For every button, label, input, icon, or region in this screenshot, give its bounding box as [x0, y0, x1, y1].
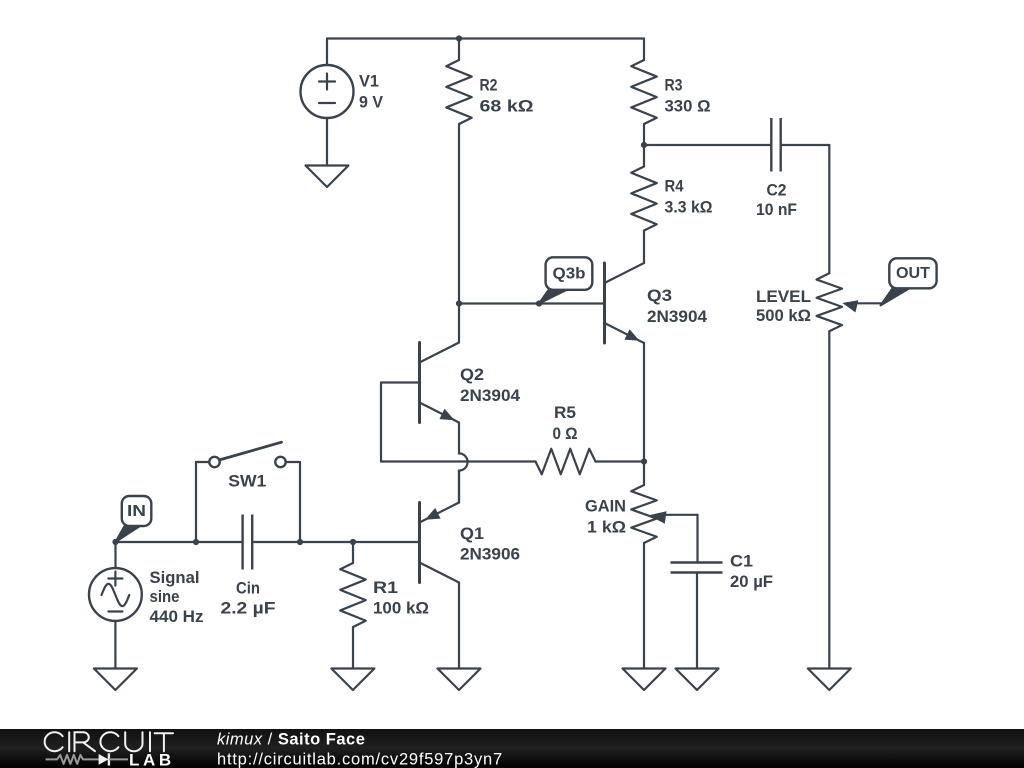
wire top rail: [327, 37, 644, 39]
svg-text:sine: sine: [150, 587, 180, 606]
svg-text:R5: R5: [554, 403, 576, 422]
wire Q2 emitter with hop over y=461.5 rail: [459, 423, 468, 503]
wire input rail: [116, 541, 420, 543]
capacitor C1: [671, 515, 774, 669]
ground for GAIN: [623, 669, 666, 691]
svg-text:3.3 kΩ: 3.3 kΩ: [665, 198, 713, 217]
svg-text:OUT: OUT: [896, 265, 930, 282]
capacitor Cin: [221, 515, 276, 618]
svg-text:kimux / Saito Face: kimux / Saito Face: [217, 731, 365, 749]
resistor R1: [340, 542, 429, 669]
wire C2 to LEVEL pot: [828, 145, 830, 273]
node SW1 right post: [297, 539, 303, 545]
svg-text:R2: R2: [480, 76, 498, 95]
svg-text:http://circuitlab.com/cv29f597: http://circuitlab.com/cv29f597p3yn7: [217, 751, 503, 768]
transistor Q2: [381, 304, 521, 462]
svg-text:Q3: Q3: [647, 286, 672, 305]
svg-text:2N3906: 2N3906: [460, 545, 520, 564]
svg-text:C1: C1: [730, 552, 753, 571]
voltage source V1: [301, 39, 384, 166]
resistor R3: [631, 39, 710, 146]
svg-text:1 kΩ: 1 kΩ: [587, 518, 626, 537]
CircuitLab logo resistor-diode squiggle: [46, 753, 129, 765]
svg-text:LEVEL: LEVEL: [756, 287, 811, 306]
svg-text:68 kΩ: 68 kΩ: [480, 97, 534, 116]
flag IN: [116, 496, 152, 542]
svg-text:9 V: 9 V: [359, 93, 384, 112]
transistor Q3: [459, 263, 708, 343]
svg-text:V1: V1: [359, 72, 379, 91]
potentiometer LEVEL: [756, 273, 883, 668]
flag Q3b: [539, 257, 592, 303]
node SW1 left post: [193, 539, 199, 545]
svg-text:Q1: Q1: [460, 524, 484, 543]
svg-text:0 Ω: 0 Ω: [553, 424, 578, 443]
svg-text:500 kΩ: 500 kΩ: [756, 306, 811, 325]
node Q3b flag attach: [536, 300, 542, 306]
svg-text:Q2: Q2: [460, 365, 484, 384]
ground for R1: [331, 669, 374, 691]
switch SW1: [196, 442, 300, 542]
svg-text:R1: R1: [373, 578, 398, 597]
svg-text:R4: R4: [665, 177, 684, 196]
svg-text:100 kΩ: 100 kΩ: [373, 599, 429, 618]
svg-text:IN: IN: [127, 503, 146, 520]
resistor R5: [536, 403, 645, 474]
ground for Q1 collector: [438, 669, 481, 691]
wire Q3 emitter to GAIN node: [643, 343, 645, 462]
CircuitLab logo CIRCUIT outline letters: [45, 732, 173, 751]
signal source V2 sine: [89, 542, 204, 669]
svg-text:20 µF: 20 µF: [730, 572, 773, 591]
svg-text:2.2 µF: 2.2 µF: [221, 599, 276, 618]
ground for V1: [306, 166, 349, 188]
svg-text:Q3b: Q3b: [553, 265, 586, 282]
capacitor C2: [644, 118, 829, 219]
node Q3 base at R2: [456, 300, 462, 306]
svg-text:SW1: SW1: [228, 472, 266, 491]
svg-text:GAIN: GAIN: [585, 497, 626, 516]
svg-text:330 Ω: 330 Ω: [665, 97, 711, 116]
resistor R2: [446, 39, 533, 304]
ground for signal source: [94, 669, 137, 691]
svg-text:Cin: Cin: [236, 579, 260, 598]
flag OUT: [881, 258, 937, 305]
potentiometer GAIN: [585, 462, 698, 669]
svg-text:C2: C2: [767, 181, 787, 200]
ground for LEVEL: [808, 669, 851, 691]
node top rail junction: [456, 35, 462, 41]
node R1 top: [350, 539, 356, 545]
wire Q2 base rail to R5: [381, 460, 536, 462]
svg-text:R3: R3: [665, 76, 683, 95]
node IN: [112, 539, 118, 545]
svg-text:440 Hz: 440 Hz: [150, 607, 204, 626]
node R3 bottom: [641, 142, 647, 148]
svg-text:2N3904: 2N3904: [647, 307, 708, 326]
transistor Q1: [420, 471, 521, 669]
ground for C1: [676, 669, 719, 691]
resistor R4: [631, 145, 712, 263]
node R5 right / GAIN top: [641, 458, 647, 464]
svg-text:2N3904: 2N3904: [460, 386, 521, 405]
svg-text:LAB: LAB: [129, 751, 175, 768]
svg-text:Signal: Signal: [150, 568, 200, 587]
svg-text:10 nF: 10 nF: [756, 200, 797, 219]
